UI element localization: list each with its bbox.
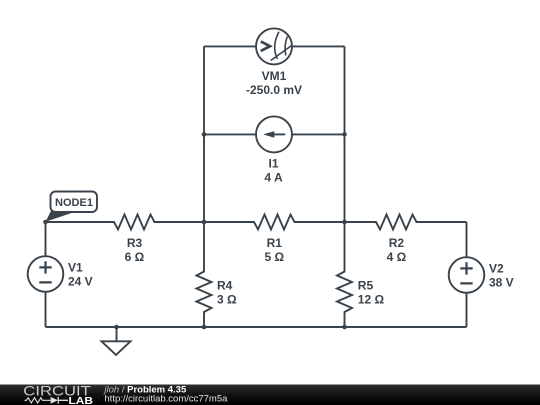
resistor R4 vertical <box>197 222 212 327</box>
svg-text:V1: V1 <box>68 261 83 275</box>
svg-text:12 Ω: 12 Ω <box>358 293 385 307</box>
junction dot I1 right <box>342 132 347 137</box>
svg-text:R5: R5 <box>358 279 374 293</box>
svg-text:4 Ω: 4 Ω <box>387 250 407 264</box>
voltmeter VM1 <box>256 28 292 64</box>
svg-text:3 Ω: 3 Ω <box>217 293 237 307</box>
svg-text:NODE1: NODE1 <box>55 197 93 209</box>
svg-text:5 Ω: 5 Ω <box>264 250 284 264</box>
wire bottom horizontal <box>46 326 467 328</box>
svg-text:V2: V2 <box>489 262 504 276</box>
junction dot bottom right <box>342 325 347 330</box>
wire right branch V2 <box>466 222 468 327</box>
current source I1 <box>256 116 292 152</box>
svg-text:I1: I1 <box>268 157 278 171</box>
node NODE1 box <box>51 192 98 213</box>
logo diode <box>51 397 58 404</box>
svg-text:R1: R1 <box>267 236 283 250</box>
svg-text:R4: R4 <box>217 279 233 293</box>
svg-text:38 V: 38 V <box>489 276 514 290</box>
svg-text:6 Ω: 6 Ω <box>125 250 145 264</box>
junction dot ground <box>114 325 119 330</box>
junction dot I1 left <box>202 132 207 137</box>
voltage source V1 <box>28 256 64 292</box>
svg-text:http://circuitlab.com/cc77m5a: http://circuitlab.com/cc77m5a <box>104 394 228 405</box>
svg-text:R3: R3 <box>127 236 143 250</box>
voltage source V2 <box>449 257 485 293</box>
resistor R5 vertical <box>337 222 352 327</box>
svg-text:R2: R2 <box>389 236 405 250</box>
svg-text:24 V: 24 V <box>68 275 93 289</box>
ground symbol triangle <box>102 341 131 355</box>
junction dot node A <box>43 220 48 225</box>
wire main horizontal with R3 R1 R2 <box>46 215 467 230</box>
svg-text:VM1: VM1 <box>262 69 287 83</box>
junction dot bottom left <box>202 325 207 330</box>
ground stub <box>116 327 118 341</box>
junction dot main left <box>202 220 207 225</box>
svg-text:LAB: LAB <box>69 395 94 405</box>
svg-text:-250.0 mV: -250.0 mV <box>246 83 302 97</box>
logo squiggle resistor <box>25 398 51 403</box>
wire left branch V1 <box>45 222 47 327</box>
junction dot main right <box>342 220 347 225</box>
wire top horizontal through VM1 <box>204 45 345 47</box>
wire top loop right vertical <box>344 46 346 222</box>
svg-text:4 A: 4 A <box>264 171 283 185</box>
node NODE1 flag pointer <box>46 209 74 222</box>
wire top loop left vertical <box>203 46 205 222</box>
wire I1 branch horizontal <box>204 133 345 135</box>
